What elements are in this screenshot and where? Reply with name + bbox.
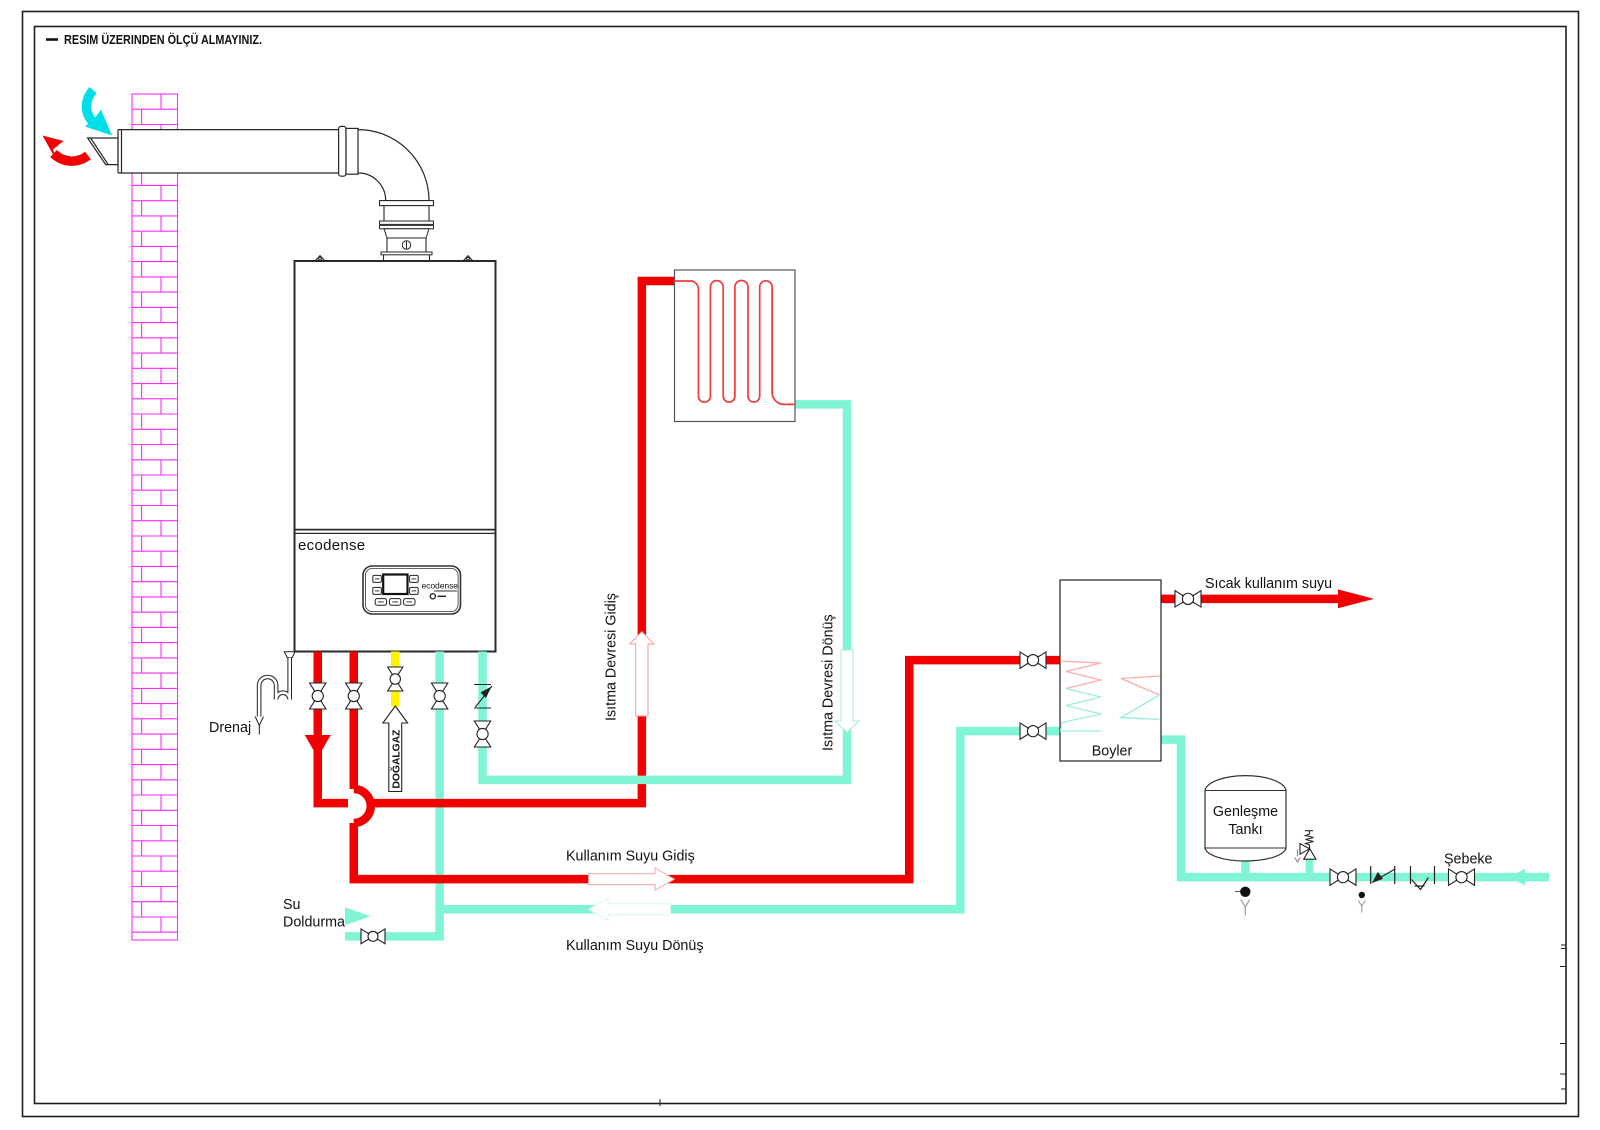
- svg-text:Tankı: Tankı: [1228, 822, 1262, 838]
- svg-text:Kullanım Suyu Gidiş: Kullanım Suyu Gidiş: [566, 849, 695, 865]
- svg-text:Sıcak kullanım suyu: Sıcak kullanım suyu: [1205, 576, 1332, 592]
- svg-text:ecodense: ecodense: [298, 537, 365, 554]
- svg-text:ecodense: ecodense: [422, 581, 459, 591]
- svg-text:Boyler: Boyler: [1092, 744, 1133, 760]
- svg-text:Şebeke: Şebeke: [1444, 852, 1493, 868]
- svg-text:DOĞALGAZ: DOĞALGAZ: [390, 730, 403, 789]
- svg-text:Kullanım Suyu Dönüş: Kullanım Suyu Dönüş: [566, 938, 703, 954]
- svg-text:Isıtma Devresi Dönüş: Isıtma Devresi Dönüş: [821, 614, 837, 751]
- svg-text:Isıtma Devresi Gidiş: Isıtma Devresi Gidiş: [604, 593, 620, 721]
- svg-text:Su: Su: [283, 897, 301, 913]
- svg-text:Genleşme: Genleşme: [1213, 804, 1278, 820]
- svg-text:Drenaj: Drenaj: [209, 720, 251, 736]
- svg-text:RESIM ÜZERINDEN ÖLÇÜ ALMAYINIZ: RESIM ÜZERINDEN ÖLÇÜ ALMAYINIZ.: [64, 32, 262, 47]
- svg-text:Doldurma: Doldurma: [283, 915, 345, 931]
